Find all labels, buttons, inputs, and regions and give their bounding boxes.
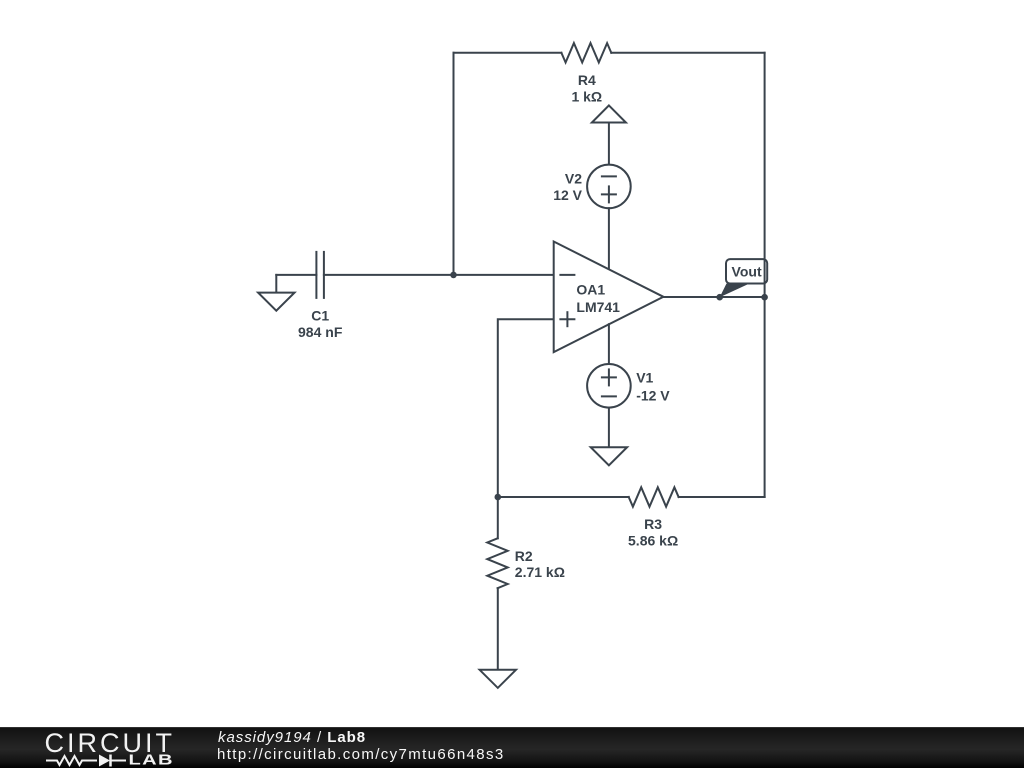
svg-text:12 V: 12 V [553, 187, 582, 203]
wire: V1 to ground [608, 408, 610, 448]
svg-text:5.86 kΩ: 5.86 kΩ [628, 533, 678, 549]
label V1 [636, 370, 670, 404]
ground (V1) [591, 447, 627, 465]
V2 minus sign [602, 175, 616, 177]
svg-text:Vout: Vout [732, 263, 762, 279]
V2 plus sign [602, 193, 616, 195]
resistor R4 [561, 43, 611, 62]
V1 minus sign [602, 395, 616, 397]
wire: ground to C1 left plate [276, 274, 316, 276]
svg-text:1 kΩ: 1 kΩ [571, 88, 602, 104]
resistor R2 [487, 538, 507, 588]
svg-text:C1: C1 [311, 308, 329, 324]
wire: top horizontal right segment from R4 to right rail [611, 52, 764, 54]
wire: R2 to ground [497, 588, 499, 670]
label C1 [298, 308, 343, 341]
voltage source V1 [587, 364, 631, 408]
node: R2/R3 feedback junction [495, 494, 502, 501]
svg-text:R4: R4 [578, 72, 596, 88]
node: Vout tap junction [716, 294, 723, 301]
wire: inverting node to op-amp minus input [454, 274, 554, 276]
wire: C1 right plate to inverting node [324, 274, 454, 276]
power flag (V+ arrow) [592, 105, 626, 122]
svg-text:LM741: LM741 [576, 299, 620, 315]
ground (C1) [275, 275, 277, 293]
voltage source V2 [587, 165, 631, 209]
svg-text:OA1: OA1 [576, 282, 605, 298]
svg-text:2.71 kΩ: 2.71 kΩ [515, 564, 565, 580]
wire: op-amp output [663, 296, 764, 298]
label OA1 [576, 282, 620, 315]
wire: R3 left segment from node [498, 496, 629, 498]
credit text [218, 730, 366, 746]
svg-text:R3: R3 [644, 516, 662, 532]
resistor R3 [629, 487, 679, 506]
label Vout [732, 263, 762, 279]
logo diode [99, 755, 110, 767]
wire: arrow to V2 [608, 123, 610, 165]
wire: feedback top-left vertical from inverting node up [453, 53, 455, 275]
svg-text:V2: V2 [565, 171, 582, 187]
op-amp minus input symbol [560, 274, 574, 276]
wire: non-inverting input from feedback node [498, 319, 554, 497]
label R2 [515, 548, 565, 580]
CircuitLab logo [0, 727, 200, 768]
url text [217, 747, 505, 763]
node: output/feedback junction [761, 294, 768, 301]
ground (R2) [480, 670, 516, 688]
capacitor C1 [315, 252, 317, 298]
label V2 [553, 171, 582, 204]
wire: V2 to op-amp V+ pin [608, 208, 610, 269]
wire: junction down to R2 [497, 497, 499, 538]
label R4 [571, 72, 602, 105]
svg-text:984 nF: 984 nF [298, 324, 343, 340]
Vout flag box [726, 259, 767, 283]
svg-text:-12 V: -12 V [636, 387, 670, 403]
wire: right rail vertical [764, 53, 766, 497]
logo resistor [46, 756, 97, 765]
wire: R3 right segment to right rail [679, 496, 765, 498]
wire: top horizontal left segment to R4 [454, 52, 562, 54]
op-amp plus input symbol [560, 318, 574, 320]
V1 plus sign [602, 376, 616, 378]
svg-text:V1: V1 [636, 370, 653, 386]
Vout flag tail [720, 284, 750, 298]
watermark bar [0, 727, 1024, 768]
op-amp OA1 triangle [554, 242, 664, 353]
svg-text:LAB: LAB [129, 751, 174, 768]
svg-text:R2: R2 [515, 548, 533, 564]
wire: op-amp V- pin to V1 [608, 324, 610, 364]
node: inverting input junction [450, 272, 457, 279]
label R3 [628, 516, 678, 549]
